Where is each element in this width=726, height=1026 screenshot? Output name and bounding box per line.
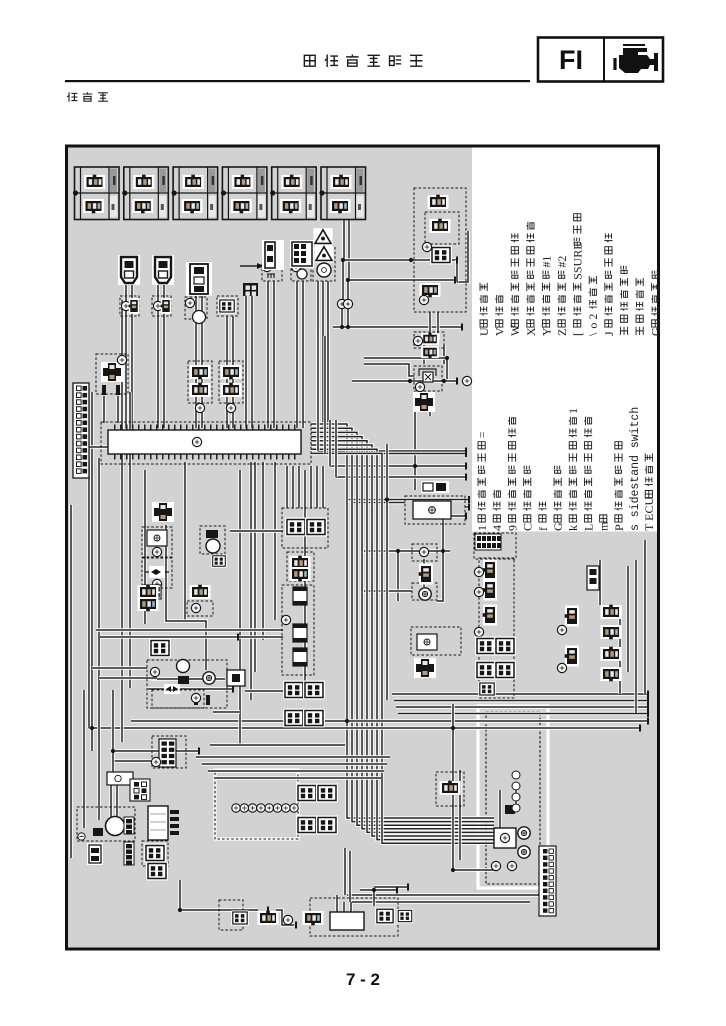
FI label box xyxy=(538,38,663,82)
pin rows xyxy=(170,810,179,835)
svg-text:T ECU: T ECU xyxy=(642,497,656,531)
coil 2 terminal xyxy=(153,301,162,310)
warning symbol 2 xyxy=(314,245,333,263)
meter connector 2 xyxy=(316,784,338,803)
connector xyxy=(144,844,166,863)
wire xyxy=(273,462,276,620)
wire xyxy=(374,885,408,888)
lean-angle relay box xyxy=(414,366,442,391)
wire xyxy=(124,282,127,316)
pin xyxy=(206,695,210,705)
wire xyxy=(341,260,344,299)
wire xyxy=(437,507,443,601)
wire xyxy=(346,308,349,327)
wire xyxy=(334,420,337,477)
vertical cell strip b xyxy=(124,842,134,865)
wire xyxy=(87,460,90,728)
joint connector xyxy=(414,658,436,678)
legend: legend ignition fuse xyxy=(521,466,535,531)
connector 2 xyxy=(146,862,168,881)
svg-text:o 2: o 2 xyxy=(586,314,600,329)
connector pair xyxy=(138,585,159,599)
wire xyxy=(230,529,283,532)
wire xyxy=(335,895,338,913)
small connector xyxy=(87,843,103,865)
svg-text:#1: #1 xyxy=(539,256,553,268)
connector xyxy=(221,383,242,397)
wire xyxy=(372,890,375,906)
fuel injection relay xyxy=(417,634,437,650)
arrow into connector xyxy=(240,263,264,269)
wire xyxy=(183,462,186,620)
wire xyxy=(385,444,388,700)
wire xyxy=(315,466,318,508)
wire xyxy=(364,589,412,592)
wire xyxy=(323,336,326,454)
wire xyxy=(272,281,275,428)
wire xyxy=(301,281,304,428)
wire xyxy=(178,880,181,910)
wire xyxy=(89,726,640,729)
connector xyxy=(303,911,324,925)
wire xyxy=(634,560,637,713)
svg-text:C: C xyxy=(521,523,535,531)
terminal xyxy=(413,336,422,345)
connector xyxy=(190,365,211,379)
minus terminal xyxy=(78,833,85,840)
O2 sensor terminal 2 xyxy=(343,299,352,308)
wire xyxy=(453,704,494,870)
connector box 2 (handlebar switch block) xyxy=(122,167,168,220)
lamp xyxy=(419,588,431,600)
sensor circle box xyxy=(200,526,225,554)
pin xyxy=(116,385,120,395)
terminal xyxy=(262,262,271,271)
fuse block outline xyxy=(282,585,314,675)
connector xyxy=(565,606,579,627)
sensor connector box 2 xyxy=(219,361,243,403)
terminal xyxy=(474,587,483,596)
starter motor circle xyxy=(177,660,190,673)
wire xyxy=(266,281,269,428)
connector grid xyxy=(290,240,314,268)
wire xyxy=(396,705,648,708)
legend: legend pump xyxy=(597,515,611,531)
wire xyxy=(364,358,447,381)
connector grid 1 xyxy=(283,681,305,700)
pin xyxy=(194,695,198,705)
diagram frame xyxy=(67,146,659,949)
wire xyxy=(326,281,329,428)
legend: legend Z injector #2 xyxy=(555,256,569,336)
wire xyxy=(498,790,501,828)
legend: legend injection system relay xyxy=(581,417,595,531)
connector pair xyxy=(421,333,439,345)
wire xyxy=(250,296,253,428)
grid cluster box xyxy=(152,736,186,768)
terminal xyxy=(422,242,431,251)
multi-function meter box xyxy=(215,770,298,839)
legend: legend battery xyxy=(536,502,550,531)
terminal xyxy=(415,382,424,391)
connector block row xyxy=(475,534,501,550)
vertical grid connector xyxy=(159,739,176,767)
meter connector 1 xyxy=(296,784,318,803)
wire xyxy=(422,559,425,566)
wire xyxy=(445,514,466,517)
terminal xyxy=(281,615,290,624)
wire xyxy=(156,282,159,316)
connector box xyxy=(436,772,464,806)
wire xyxy=(231,316,234,428)
wire xyxy=(311,428,494,821)
TPS coil box xyxy=(262,262,282,281)
legend: legend lean angle cut-off switch xyxy=(620,266,628,335)
injector connector 3 xyxy=(601,647,622,661)
inline fuse xyxy=(164,684,180,694)
wire xyxy=(179,908,258,911)
svg-text:1: 1 xyxy=(566,408,580,414)
wire xyxy=(148,687,233,690)
terminal right xyxy=(462,376,471,385)
wire xyxy=(131,719,648,722)
terminal xyxy=(191,603,200,612)
wire xyxy=(347,220,350,281)
wire xyxy=(151,677,225,680)
connector box 5 (handlebar switch block) xyxy=(270,167,316,220)
wire xyxy=(311,437,494,829)
legend: legend multi-function display xyxy=(649,271,663,336)
wire xyxy=(113,759,152,762)
injector connector 1 xyxy=(601,605,622,619)
wire xyxy=(311,445,494,836)
legend: legend crankshaft position sensor xyxy=(475,431,489,531)
sensor connector xyxy=(483,560,497,581)
connector xyxy=(430,246,452,265)
legend: legend U ignition coil xyxy=(477,283,491,336)
ECU (engine) body xyxy=(108,430,301,454)
small grid xyxy=(211,554,226,567)
joint connector xyxy=(413,392,435,412)
svg-text:f: f xyxy=(536,527,550,531)
wire xyxy=(200,316,203,428)
vertical connector xyxy=(587,566,599,590)
wire xyxy=(124,316,127,428)
wire xyxy=(113,749,199,752)
relay plug b xyxy=(290,567,311,581)
wire xyxy=(311,441,494,833)
wire xyxy=(297,466,300,508)
terminal xyxy=(152,579,161,588)
legend: legend sidestand switch xyxy=(629,407,642,531)
svg-text:7 - 2: 7 - 2 xyxy=(346,970,380,989)
wire xyxy=(238,470,241,745)
connector xyxy=(430,219,451,233)
terminal xyxy=(419,547,428,556)
wire xyxy=(82,690,85,828)
ignition coil 2 box xyxy=(152,296,171,316)
joint connector xyxy=(152,502,174,522)
wire xyxy=(309,466,312,508)
wire xyxy=(196,755,390,758)
joint connector strip xyxy=(73,383,89,478)
terminal xyxy=(507,861,516,870)
connector box 3 (handlebar switch block) xyxy=(172,167,218,220)
wire xyxy=(96,628,283,631)
wire xyxy=(457,231,468,282)
wire xyxy=(598,560,601,605)
wire xyxy=(194,316,197,428)
terminal xyxy=(491,861,500,870)
switch symbol xyxy=(500,833,509,842)
wire xyxy=(349,895,352,913)
terminal xyxy=(226,403,235,412)
wire xyxy=(347,498,469,501)
connector xyxy=(440,781,461,795)
connector box 1 (handlebar switch block) xyxy=(73,167,119,220)
wire xyxy=(143,470,146,624)
svg-text:9: 9 xyxy=(505,525,519,531)
connector grid 4 xyxy=(303,709,325,728)
diode box xyxy=(142,558,172,588)
coil symbol xyxy=(267,274,275,278)
starter plug xyxy=(178,676,189,684)
main fuse xyxy=(293,587,307,605)
wire xyxy=(316,330,319,451)
svg-text:J: J xyxy=(602,331,616,336)
relay plug a xyxy=(290,556,311,570)
small plug xyxy=(93,828,103,836)
wire xyxy=(343,258,457,261)
terminal xyxy=(291,262,300,271)
wire xyxy=(396,551,399,601)
wire xyxy=(626,566,629,672)
wire xyxy=(291,466,294,508)
wire xyxy=(436,312,439,340)
vertical cell strip a xyxy=(124,817,134,834)
connector xyxy=(375,907,395,924)
svg-text:k: k xyxy=(566,525,580,531)
connector block xyxy=(186,262,212,296)
legend: legend speed sensor xyxy=(636,278,644,335)
sensor grid 3 xyxy=(475,661,497,680)
wire xyxy=(330,464,466,467)
wire xyxy=(364,549,450,552)
section label (3 CJK pseudo glyphs) xyxy=(67,92,108,102)
relay unit cluster xyxy=(414,188,466,312)
svg-text:4: 4 xyxy=(490,525,504,531)
legend: legend injection fuse xyxy=(505,417,519,531)
connector xyxy=(149,639,171,658)
relay contact box xyxy=(142,527,172,557)
terminal xyxy=(557,663,566,672)
svg-text:Z: Z xyxy=(555,329,569,336)
wire xyxy=(208,769,384,772)
inner box xyxy=(425,212,459,244)
sensor box 2 xyxy=(291,262,311,281)
wire xyxy=(311,453,494,843)
wire end pins xyxy=(198,257,649,929)
connector pair xyxy=(138,597,159,611)
engine icon xyxy=(615,45,658,73)
connector F xyxy=(262,240,284,270)
wire xyxy=(166,525,206,670)
wire xyxy=(92,666,147,669)
connector A xyxy=(285,518,307,537)
legend: legend W coolant temp sensor xyxy=(508,233,522,336)
sensor terminal xyxy=(185,298,194,307)
coil 1 plug xyxy=(129,298,140,314)
connector grid 3x2 xyxy=(130,779,150,801)
sensor connector xyxy=(218,298,236,313)
O2 sensor terminal 1 xyxy=(337,299,346,308)
wire xyxy=(253,462,256,672)
connector xyxy=(190,383,211,397)
wire xyxy=(213,710,240,713)
wire xyxy=(311,424,494,818)
wire xyxy=(130,282,133,316)
connector box 6 (handlebar switch block) xyxy=(319,167,365,220)
sensor circle xyxy=(193,311,206,324)
legend white panel xyxy=(472,148,657,532)
wire xyxy=(69,505,72,858)
wire xyxy=(210,743,345,746)
wire xyxy=(422,583,425,587)
sensor circle small xyxy=(297,269,307,279)
ECU T outline xyxy=(101,422,311,464)
connector grid 2 xyxy=(303,681,325,700)
connector xyxy=(397,909,414,923)
wire xyxy=(194,282,197,316)
svg-text:V: V xyxy=(493,327,507,336)
svg-text:U: U xyxy=(477,327,491,336)
legend: legend X intake air temp sensor xyxy=(524,222,538,336)
relay box right xyxy=(411,627,461,655)
legend: legend intake air pressure sensor xyxy=(571,214,585,336)
terminal xyxy=(191,693,200,702)
fuel pump relay white box xyxy=(107,772,133,785)
wire xyxy=(285,466,288,508)
wire xyxy=(311,449,494,839)
wire xyxy=(428,396,431,416)
terminal box A xyxy=(412,544,437,561)
coil 1 terminal xyxy=(121,301,130,310)
connector box 4 (handlebar switch block) xyxy=(221,167,267,220)
sensor grid 4 xyxy=(494,661,516,680)
legend: legend main switch xyxy=(490,490,504,531)
wire xyxy=(225,316,228,428)
wire xyxy=(352,379,457,382)
wire xyxy=(214,776,381,779)
ignition coil 1 box xyxy=(120,296,139,316)
warning symbol 1 xyxy=(313,228,332,246)
sensor connector column box xyxy=(479,558,514,698)
wire xyxy=(311,432,494,825)
wire xyxy=(162,282,165,316)
main switch body xyxy=(494,828,516,848)
wire xyxy=(316,281,319,428)
pin xyxy=(102,385,106,395)
wire xyxy=(325,452,466,455)
connector xyxy=(221,365,242,379)
circle sensor xyxy=(317,263,331,277)
junction connector xyxy=(148,806,168,840)
wire xyxy=(428,312,431,340)
connector xyxy=(190,585,211,599)
sensor grid 2 xyxy=(494,637,516,656)
injector connector 2 xyxy=(601,625,622,639)
terminal xyxy=(151,757,160,766)
pump box xyxy=(77,807,135,841)
terminal box B xyxy=(412,583,437,600)
wire xyxy=(321,466,324,508)
wire xyxy=(99,676,157,679)
indicator lamps xyxy=(512,771,520,812)
wire xyxy=(347,895,540,915)
wire xyxy=(249,462,252,700)
wire xyxy=(97,458,100,820)
wire xyxy=(342,220,345,261)
wire xyxy=(130,316,133,428)
svg-text:G: G xyxy=(649,327,663,336)
relay bypass loop xyxy=(419,369,436,376)
connector xyxy=(428,195,449,209)
terminal xyxy=(474,567,483,576)
svg-text:#2: #2 xyxy=(555,256,569,268)
svg-text:X: X xyxy=(524,327,538,336)
wire xyxy=(162,316,165,428)
connector box xyxy=(142,841,168,866)
legend: legend O2 sensor xyxy=(586,276,600,336)
wire xyxy=(321,281,324,428)
legend: legend main fuse xyxy=(551,466,565,531)
black grid connector small xyxy=(243,283,258,296)
wire xyxy=(336,475,466,478)
connector B xyxy=(305,518,327,537)
svg-text:G: G xyxy=(551,522,565,531)
wire xyxy=(115,782,118,817)
meter connector 3 xyxy=(296,816,318,835)
terminal xyxy=(557,625,566,634)
svg-text:SSURE: SSURE xyxy=(571,242,585,279)
starter relay coil xyxy=(203,672,215,684)
svg-text:1: 1 xyxy=(475,525,489,531)
connector xyxy=(231,910,249,925)
wire xyxy=(116,396,119,423)
connector internal lines xyxy=(150,814,166,830)
terminal xyxy=(150,667,159,676)
meter lamps xyxy=(232,804,298,812)
plug cap connector 2 xyxy=(152,255,174,285)
relay symbol xyxy=(101,362,123,382)
joint connector under legend xyxy=(474,533,516,559)
wire xyxy=(120,300,123,742)
relay body xyxy=(413,501,451,519)
wire xyxy=(261,462,264,640)
terminal xyxy=(474,627,483,636)
wire xyxy=(364,364,414,376)
header rule xyxy=(65,80,530,82)
coil 2 plug xyxy=(161,298,172,314)
injection fuse xyxy=(293,648,307,666)
legend: legend Y injector #1 xyxy=(539,256,553,336)
wire xyxy=(340,308,343,327)
wire xyxy=(348,278,455,281)
wire xyxy=(394,699,648,702)
battery symbol xyxy=(227,670,245,686)
lower relay box xyxy=(152,690,204,708)
wire xyxy=(343,848,346,895)
